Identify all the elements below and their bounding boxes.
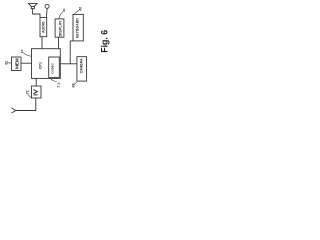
svg-text:60: 60 <box>20 49 24 53</box>
reference numeral 68 camera <box>71 82 77 87</box>
microphone <box>45 4 49 8</box>
svg-text:CPU: CPU <box>38 61 42 69</box>
svg-text:72: 72 <box>26 90 30 94</box>
wire speaker to audio <box>33 9 40 18</box>
svg-text:CAMERA: CAMERA <box>80 58 84 73</box>
block RF transceiver <box>32 86 42 98</box>
block DISPLAY <box>55 19 64 37</box>
block MEM <box>12 57 22 71</box>
reference numeral 62 mem <box>4 61 11 65</box>
svg-text:70: 70 <box>57 81 61 87</box>
svg-text:MEM: MEM <box>14 58 19 69</box>
wire display to cpu <box>58 38 60 49</box>
block KEYBOARD <box>73 14 83 41</box>
svg-text:DISPLAY: DISPLAY <box>58 20 62 37</box>
svg-text:Fig. 6: Fig. 6 <box>99 30 109 53</box>
wire mic to audio <box>45 8 48 17</box>
reference numeral 70 codec <box>51 78 62 87</box>
wire cpu to rf <box>35 78 37 86</box>
wire cpu to camera <box>60 63 77 65</box>
reference numeral 66 keyboard <box>74 7 82 14</box>
svg-text:64: 64 <box>62 8 66 12</box>
svg-text:66: 66 <box>78 7 82 11</box>
antenna <box>12 108 16 113</box>
block CPU <box>32 49 61 79</box>
svg-text:CODEC: CODEC <box>51 62 55 73</box>
reference numeral 60 cpu <box>20 49 31 56</box>
wire mem to cpu <box>21 62 32 64</box>
svg-text:KEYBOARD: KEYBOARD <box>75 18 79 39</box>
svg-text:68: 68 <box>71 84 75 88</box>
wire audio to cpu <box>41 37 43 49</box>
wire keyboard to bus <box>70 41 73 64</box>
wire rf to antenna <box>16 98 36 111</box>
block AUDIO <box>40 18 47 37</box>
block CODEC nested in CPU <box>49 57 60 77</box>
reference numeral 64 display <box>59 8 66 18</box>
reference numeral 72 rf <box>26 90 32 97</box>
speaker LS <box>29 3 38 8</box>
block CAMERA <box>77 57 87 81</box>
svg-text:AUDIO: AUDIO <box>42 21 46 33</box>
